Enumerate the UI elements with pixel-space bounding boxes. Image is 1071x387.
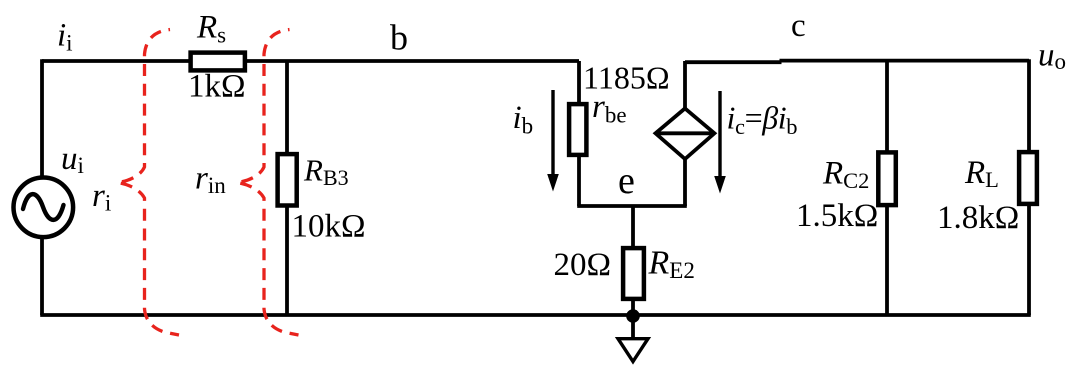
label 20Ohm	[554, 247, 612, 283]
wire: dependent source branch vertical	[683, 61, 687, 206]
ground symbol	[618, 339, 648, 362]
wire: node e horizontal	[577, 204, 687, 208]
resistor RL (1.8k) box	[1019, 152, 1037, 204]
svg-text:ib: ib	[513, 100, 534, 139]
red dashed boundary r_i	[118, 30, 180, 336]
svg-text:ui: ui	[61, 141, 84, 178]
label r_i	[92, 178, 111, 216]
label r_be	[592, 89, 627, 128]
label u_o (output voltage)	[1038, 38, 1066, 75]
svg-text:ic=βib: ic=βib	[727, 100, 798, 140]
label i_i (input current)	[57, 18, 73, 56]
wire: RE2 branch vertical	[631, 206, 635, 315]
svg-text:RE2: RE2	[648, 245, 695, 284]
current arrow ib	[547, 90, 559, 192]
resistor RE2 (20 ohm) box	[623, 248, 644, 299]
svg-text:uo: uo	[1038, 38, 1066, 75]
label r_in	[195, 161, 226, 199]
wire: RC2 branch vertical	[885, 61, 889, 315]
wire: top node c horizontal (left part, slightly lower)	[685, 60, 782, 64]
svg-text:ri: ri	[92, 178, 111, 216]
svg-text:c: c	[791, 8, 806, 44]
label Rs	[196, 10, 226, 48]
wire: left vertical below source	[40, 236, 44, 315]
wire: bottom rail	[40, 313, 1031, 317]
svg-text:b: b	[390, 18, 408, 58]
svg-text:RB3: RB3	[303, 153, 349, 191]
label node c	[791, 8, 806, 44]
junction dot at RE2/ground	[626, 309, 640, 323]
svg-text:rin: rin	[195, 161, 226, 199]
svg-text:1.5kΩ: 1.5kΩ	[796, 198, 878, 234]
svg-text:1.8kΩ: 1.8kΩ	[937, 200, 1019, 236]
resistor Rs (1k) box	[191, 53, 245, 71]
label node e	[618, 160, 635, 202]
red dashed boundary r_in	[237, 30, 299, 336]
svg-text:ii: ii	[57, 18, 73, 56]
wire: RL branch vertical	[1027, 59, 1031, 315]
wire: top node c horizontal (right part)	[780, 59, 1030, 63]
label ic = beta ib	[727, 100, 798, 140]
label 1kOhm	[188, 69, 246, 105]
label i_b	[513, 100, 534, 139]
label RB3	[303, 153, 349, 191]
label 1185Ohm	[583, 60, 670, 96]
voltage source U (AC source circle with sine)	[14, 178, 74, 238]
wire: top node b horizontal	[42, 59, 579, 63]
wire: rbe branch vertical	[577, 61, 581, 206]
current arrow ic	[714, 91, 726, 194]
label RL	[964, 155, 999, 192]
svg-text:RC2: RC2	[822, 156, 869, 194]
label 1.5kOhm	[796, 198, 878, 234]
svg-text:Rs: Rs	[196, 10, 226, 48]
svg-text:e: e	[618, 160, 635, 202]
dependent current source (diamond)	[656, 108, 715, 159]
wire: RB3 branch vertical	[285, 61, 289, 315]
svg-text:10kΩ: 10kΩ	[292, 209, 366, 245]
label 10kOhm	[292, 209, 366, 245]
resistor RB3 (10k) box	[278, 154, 297, 205]
resistor rbe (1185 ohm) box	[569, 104, 586, 155]
label RC2	[822, 156, 869, 194]
wire: left vertical above source	[40, 59, 44, 178]
label RE2	[648, 245, 695, 284]
svg-text:RL: RL	[964, 155, 999, 192]
label u_i (source voltage)	[61, 141, 84, 178]
svg-text:20Ω: 20Ω	[554, 247, 612, 283]
label 1.8kOhm	[937, 200, 1019, 236]
wire: ground stub	[631, 315, 635, 340]
label node b	[390, 18, 408, 58]
resistor RC2 (1.5k) box	[878, 152, 896, 205]
svg-text:1kΩ: 1kΩ	[188, 69, 246, 105]
